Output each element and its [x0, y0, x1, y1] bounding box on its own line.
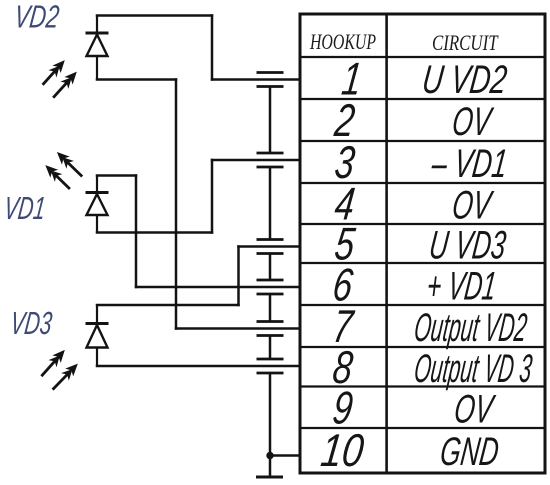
light arrow into VD3 (b)	[49, 361, 80, 392]
svg-text:Output VD2: Output VD2	[412, 305, 529, 350]
photodiode VD2	[86, 16, 109, 80]
net label U VD3	[427, 223, 509, 268]
svg-text:U VD2: U VD2	[420, 57, 509, 102]
wire VD2 cathode vertical drop	[211, 16, 214, 80]
svg-text:VD2: VD2	[13, 0, 62, 34]
pin number 6	[330, 259, 356, 311]
wire row 10 (GND) from bus	[270, 454, 300, 457]
wire VD3 cathode vertical rise	[237, 247, 240, 306]
svg-text:10: 10	[318, 425, 367, 476]
wire VD2 cathode top horizontal	[97, 14, 212, 17]
table row divider 4/5	[300, 223, 545, 225]
light arrow into VD3 (a)	[38, 348, 67, 379]
wire ground bus segment C3-C4	[269, 255, 272, 279]
pin number 1	[339, 53, 365, 105]
component label VD3	[8, 305, 54, 341]
ground terminator bar	[256, 476, 283, 479]
table row divider 8/9	[300, 385, 545, 387]
table header divider	[300, 56, 545, 58]
table row divider 7/8	[300, 346, 545, 348]
light arrow out of VD1 (a)	[55, 150, 86, 180]
table row divider 3/4	[300, 182, 545, 184]
wire row 1 (U VD2) to table	[212, 78, 300, 81]
net label 0V row 2	[450, 100, 496, 145]
capacitor C3 feedthrough row 5	[257, 240, 284, 254]
net label - VD1	[429, 142, 510, 186]
svg-text:Output VD 3: Output VD 3	[412, 346, 535, 391]
table row divider 6/7	[300, 304, 545, 306]
pin number 3	[332, 136, 358, 188]
net label 0V row 4	[450, 183, 496, 228]
wire VD2 anode long vertical	[175, 80, 178, 329]
net label Output VD 3	[412, 346, 535, 391]
wire row 7 (Output VD2) to table	[176, 327, 300, 330]
component label VD2	[13, 0, 62, 34]
wire ground bus segment C1-C2	[269, 88, 272, 152]
net label Output VD2	[412, 305, 529, 350]
wire ground bus segment C6 to terminator	[269, 374, 272, 476]
pin number 7	[330, 300, 357, 352]
capacitor C5 feedthrough row 7	[257, 322, 284, 336]
wire ground bus segment C5-C6	[269, 337, 272, 358]
pin number 8	[330, 341, 356, 393]
svg-text:U VD3: U VD3	[427, 223, 509, 268]
component label VD1	[2, 189, 48, 225]
svg-text:VD3: VD3	[8, 305, 54, 341]
table row divider 1/2	[300, 98, 545, 100]
pin number 2	[331, 94, 358, 146]
wire row 3 (- VD1) to table	[212, 159, 300, 162]
wire VD1 anode vertical rise	[211, 160, 214, 233]
net label 0V row 9	[452, 387, 498, 432]
wire row 8 (Output VD 3) from VD3 anode	[97, 365, 300, 368]
net label + VD1	[424, 265, 498, 309]
wire ground bus segment C2-C3	[269, 168, 272, 238]
svg-text:GND: GND	[438, 430, 501, 475]
pin number 5	[332, 218, 358, 270]
table row divider 2/3	[300, 140, 545, 142]
light arrow out of VD1 (b)	[43, 163, 73, 192]
table outer frame	[300, 14, 545, 473]
pin number 10	[318, 425, 367, 476]
svg-text:– VD1: – VD1	[429, 142, 510, 186]
svg-text:+ VD1: + VD1	[424, 265, 498, 309]
capacitor C1 feedthrough row 1	[257, 73, 284, 87]
wire VD1 cathode top horizontal	[97, 174, 136, 177]
wire VD2 anode horizontal	[97, 78, 176, 81]
wire ground bus segment C4-C5	[269, 295, 272, 320]
photodiode VD3	[86, 305, 109, 366]
table row divider 5/6	[300, 262, 545, 264]
capacitor C4 feedthrough row 6	[257, 280, 284, 294]
net label U VD2	[420, 57, 509, 102]
header label HOOKUP	[309, 31, 376, 55]
LED VD1	[86, 176, 109, 233]
wire VD1 cathode vertical	[135, 176, 138, 288]
svg-text:VD1: VD1	[2, 189, 48, 225]
pin number 9	[330, 382, 356, 434]
wire row 5 (U VD3) to table	[239, 245, 301, 248]
wire VD1 anode horizontal	[97, 231, 212, 234]
header label CIRCUIT	[432, 31, 499, 56]
light arrow into VD2 (b)	[50, 69, 80, 100]
table column divider	[385, 14, 388, 473]
wire VD3 cathode horizontal	[97, 304, 239, 307]
svg-text:CIRCUIT: CIRCUIT	[432, 31, 499, 56]
capacitor C2 feedthrough row 3	[257, 153, 284, 167]
svg-text:HOOKUP: HOOKUP	[309, 31, 376, 55]
pin number 4	[332, 178, 358, 230]
table row divider 9/10	[300, 427, 545, 429]
wire row 6 (+ VD1) to table	[136, 286, 300, 289]
light arrow into VD2 (a)	[39, 58, 67, 88]
capacitor C6 feedthrough row 8	[257, 359, 284, 373]
net label GND	[438, 430, 501, 475]
junction dot on ground bus	[266, 452, 273, 459]
